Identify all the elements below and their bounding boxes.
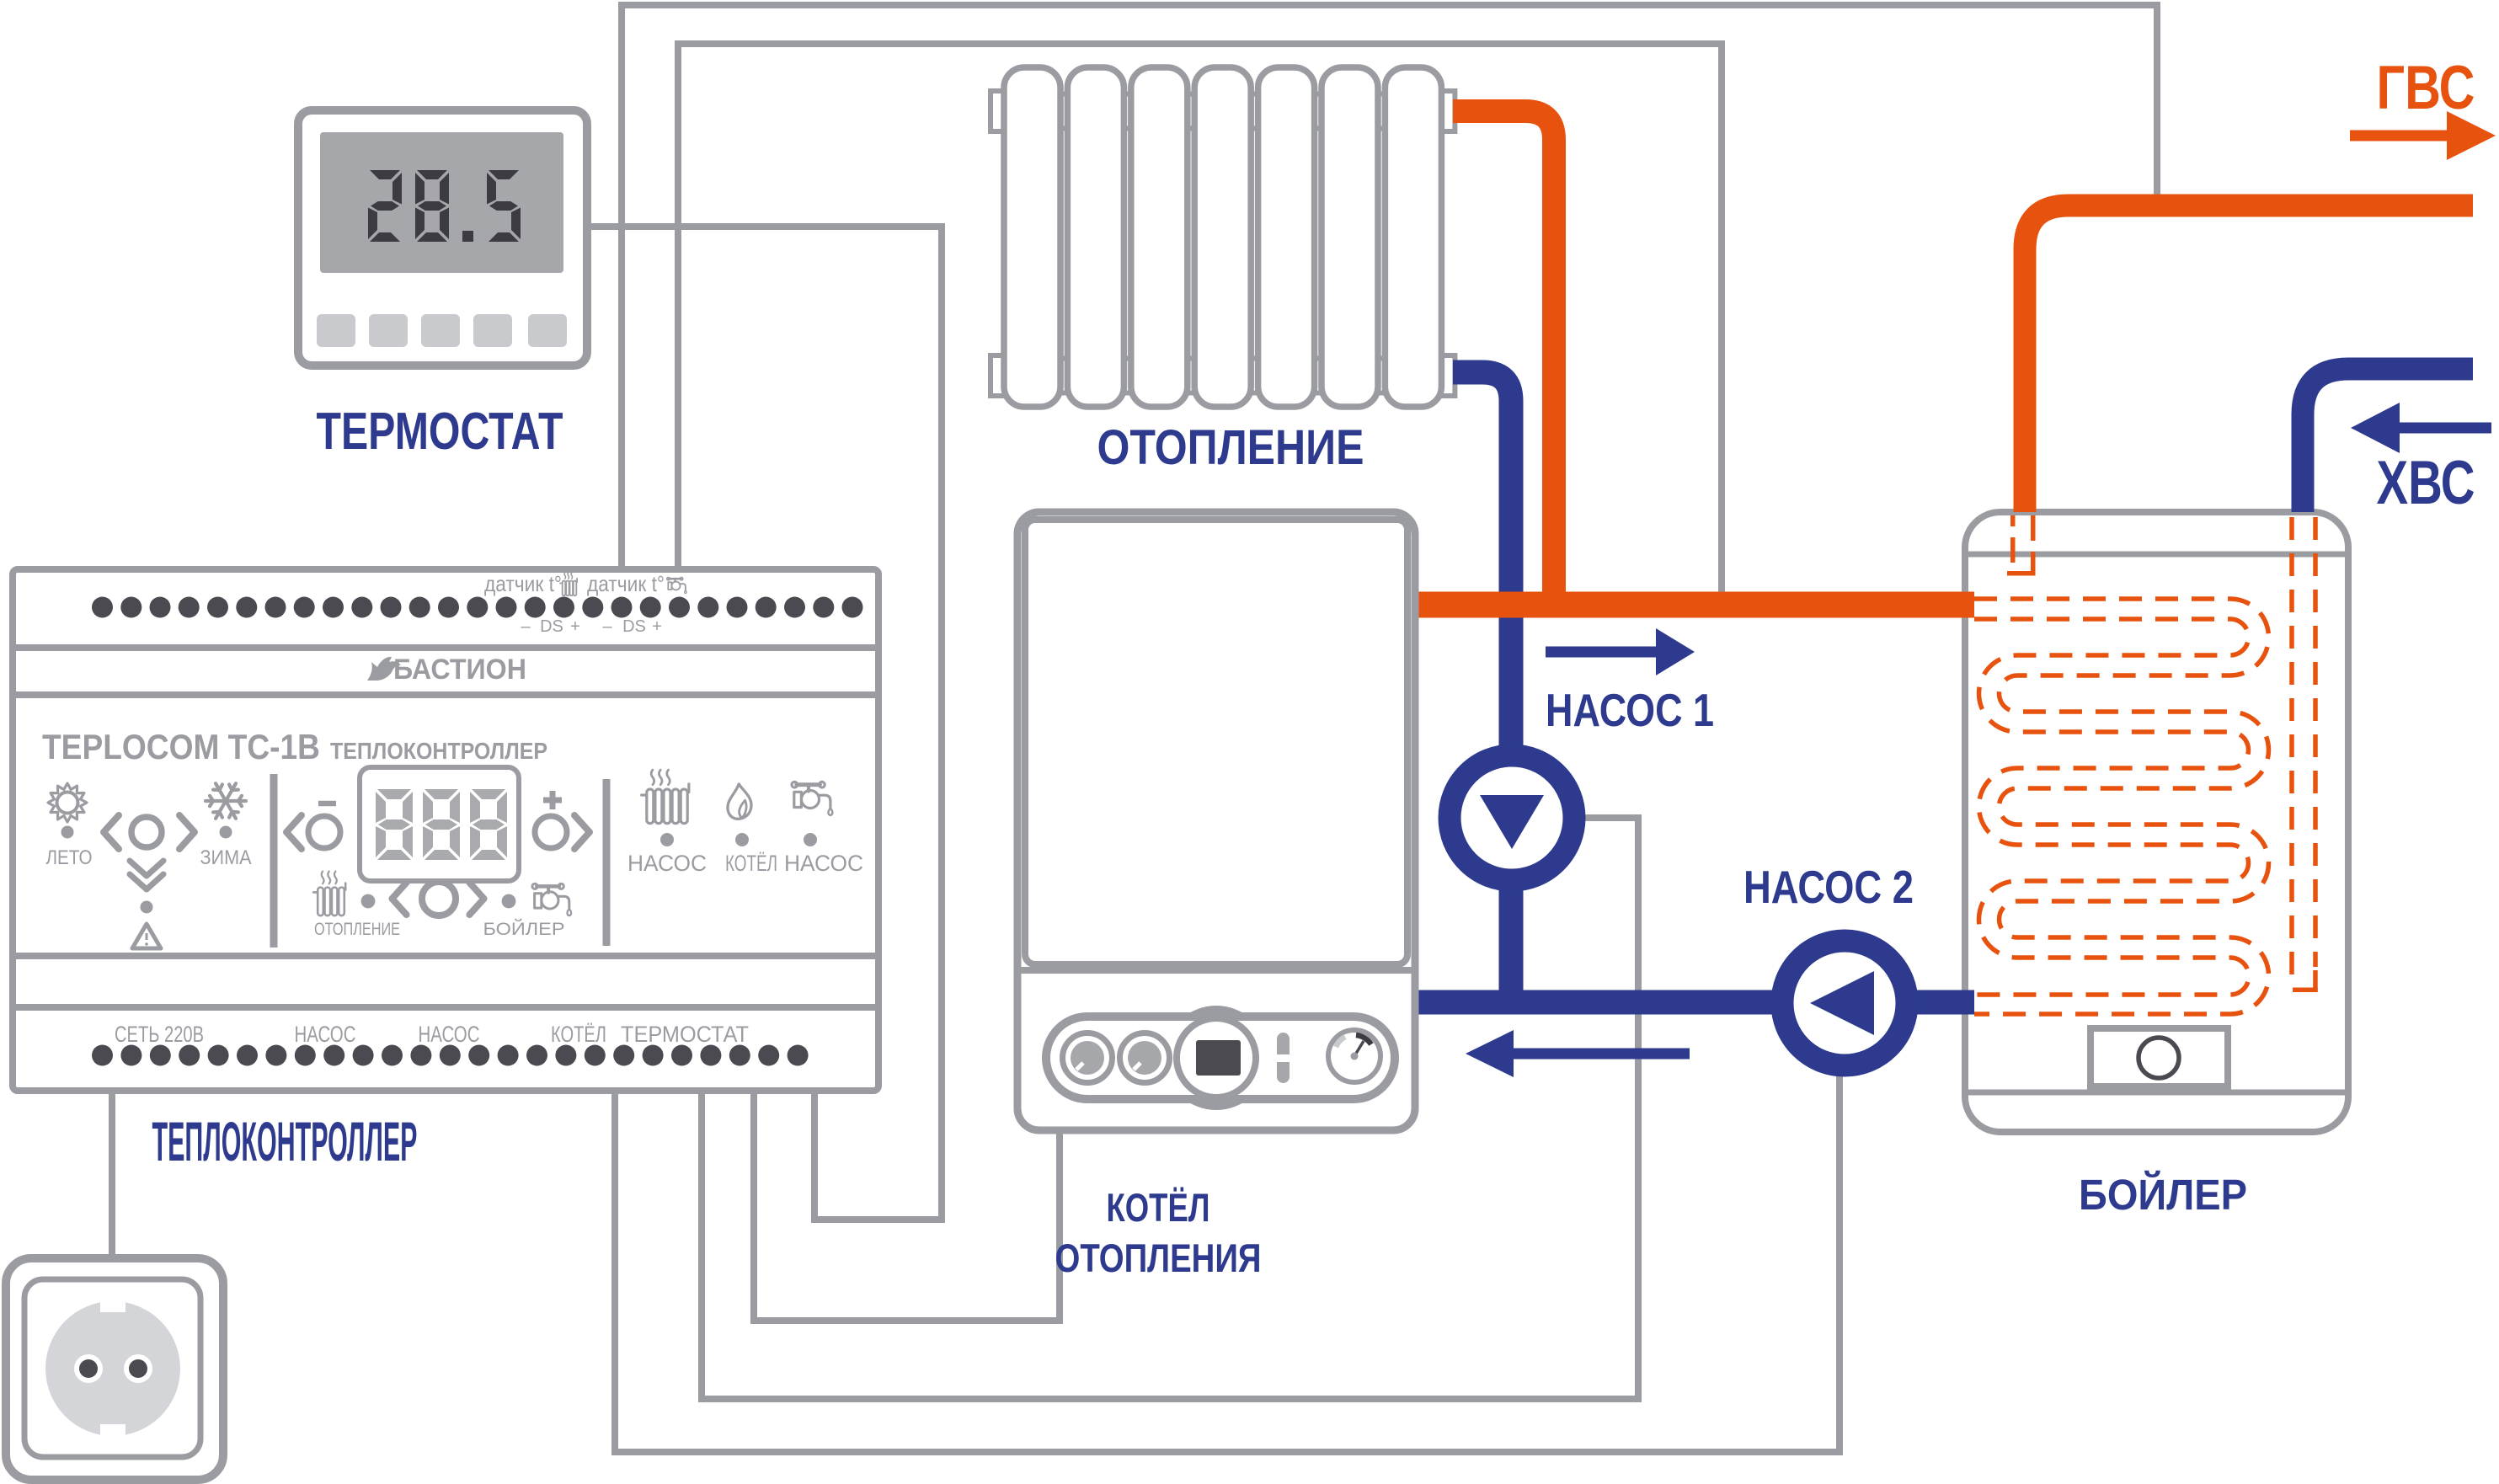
БАСТИОН logo bbox=[367, 654, 526, 686]
label НАСОС 2 bbox=[1743, 861, 1914, 913]
label НАСОС 1 bbox=[1546, 684, 1714, 736]
svg-text:КОТЁЛ: КОТЁЛ bbox=[725, 851, 777, 876]
label ТЕРМОСТАТ bbox=[317, 403, 563, 461]
label ГВС bbox=[2377, 54, 2475, 122]
controller title TEPLOCOM TC-1B bbox=[42, 727, 547, 766]
svg-text:датчик t°: датчик t° bbox=[484, 571, 562, 596]
ГВС arrow bbox=[2350, 111, 2496, 160]
radiator ОТОПЛЕНИЕ bbox=[991, 67, 1455, 407]
pipe: blue bottom main котёл to бойлер bbox=[1415, 990, 1974, 1015]
svg-text:КОТЁЛ: КОТЁЛ bbox=[551, 1022, 606, 1047]
pipe: ГВС outlet from tank bbox=[2025, 206, 2473, 512]
boiler tank БОЙЛЕР body bbox=[1965, 512, 2348, 1132]
svg-text:НАСОС: НАСОС bbox=[419, 1022, 480, 1047]
label ХВС bbox=[2377, 449, 2475, 517]
heat controller TEPLOCOM body bbox=[13, 569, 878, 1091]
flow arrow return (left) bbox=[1466, 1030, 1690, 1077]
svg-text:БОЙЛЕР: БОЙЛЕР bbox=[2079, 1170, 2247, 1219]
controller bottom terminal labels bbox=[115, 1022, 749, 1047]
svg-text:ОТОПЛЕНИЯ: ОТОПЛЕНИЯ bbox=[1055, 1236, 1262, 1280]
svg-text:НАСОС 2: НАСОС 2 bbox=[1743, 861, 1914, 913]
label ТЕПЛОКОНТРОЛЛЕР bbox=[152, 1110, 418, 1172]
wire: термостат to controller bbox=[589, 227, 942, 1220]
svg-text:НАСОС: НАСОС bbox=[295, 1022, 356, 1047]
dashed ГВС pickup inside tank bbox=[2007, 515, 2036, 576]
svg-text:БАСТИОН: БАСТИОН bbox=[393, 654, 526, 686]
controller output indicators group bbox=[627, 770, 863, 876]
wire: СЕТЬ 220В to socket bbox=[109, 1090, 115, 1263]
svg-text:ХВС: ХВС bbox=[2377, 449, 2475, 517]
wire: sensor датчик t° бойлера (controller top to ГВС pipe) bbox=[622, 5, 2157, 574]
pipe: ХВС inlet to tank bbox=[2303, 369, 2473, 512]
svg-text:–: – bbox=[602, 617, 612, 636]
svg-text:ЗИМА: ЗИМА bbox=[200, 846, 252, 869]
tank thermostat button bbox=[2091, 1028, 2228, 1086]
controller summer/winter selector group bbox=[46, 783, 252, 948]
divider line 2 bbox=[603, 779, 611, 946]
svg-text:КОТЁЛ: КОТЁЛ bbox=[1107, 1185, 1210, 1230]
svg-text:ТЕРМОСТАТ: ТЕРМОСТАТ bbox=[317, 403, 563, 461]
svg-text:НАСОС: НАСОС bbox=[784, 851, 863, 876]
label ОТОПЛЕНИЕ bbox=[1097, 420, 1364, 475]
thermostat ТЕРМОСТАТ bbox=[298, 110, 587, 366]
pump НАСОС 2 bbox=[1782, 941, 1907, 1065]
svg-text:DS: DS bbox=[622, 617, 646, 636]
svg-text:DS: DS bbox=[540, 617, 563, 636]
svg-text:ЛЕТО: ЛЕТО bbox=[46, 846, 93, 869]
pipe: orange supply radiator down bbox=[1453, 111, 1554, 603]
svg-text:ОТОПЛЕНИЕ: ОТОПЛЕНИЕ bbox=[1097, 420, 1364, 475]
svg-text:БОЙЛЕР: БОЙЛЕР bbox=[483, 919, 565, 939]
dashed ХВС pipe inside tank bbox=[2292, 517, 2315, 980]
svg-text:–: – bbox=[521, 617, 531, 636]
flow arrow near НАСОС 1 (right) bbox=[1546, 628, 1695, 675]
power socket 220V bbox=[6, 1258, 223, 1480]
svg-text:+: + bbox=[652, 617, 662, 636]
label КОТЁЛ ОТОПЛЕНИЯ bbox=[1055, 1185, 1262, 1280]
ХВС arrow bbox=[2351, 403, 2491, 453]
pipe: orange main supply котёл to бойлер bbox=[1412, 592, 1974, 618]
svg-text:ТЕРМОСТАТ: ТЕРМОСТАТ bbox=[621, 1022, 749, 1047]
pipe: blue return radiator to pump1 and bottom main bbox=[1453, 372, 1511, 1002]
svg-text:датчик t°: датчик t° bbox=[587, 571, 665, 596]
wire: controller КОТЁЛ output to boiler unit bbox=[754, 1090, 1060, 1321]
wire: sensor датчик t° котла (controller top to supply pipe) bbox=[678, 44, 1722, 600]
label БОЙЛЕР bbox=[2079, 1170, 2247, 1219]
wire: controller НАСОС output to pump 2 bbox=[615, 1073, 1840, 1452]
pump НАСОС 1 bbox=[1450, 755, 1574, 880]
svg-text:TEPLOCOM TC-1B: TEPLOCOM TC-1B bbox=[42, 727, 320, 766]
controller temperature display group bbox=[286, 767, 590, 939]
svg-text:+: + bbox=[570, 617, 580, 636]
svg-text:ГВС: ГВС bbox=[2377, 54, 2475, 122]
controller top terminal labels датчик t° bbox=[484, 571, 686, 636]
svg-text:НАСОС 1: НАСОС 1 bbox=[1546, 684, 1714, 736]
svg-text:ОТОПЛЕНИЕ: ОТОПЛЕНИЕ bbox=[314, 920, 400, 939]
controller top terminal dots bbox=[92, 597, 863, 618]
svg-text:СЕТЬ 220В: СЕТЬ 220В bbox=[115, 1022, 204, 1047]
wire: controller НАСОС output to pump 1 bbox=[702, 818, 1638, 1399]
svg-text:ТЕПЛОКОНТРОЛЛЕР: ТЕПЛОКОНТРОЛЛЕР bbox=[330, 738, 547, 764]
svg-text:НАСОС: НАСОС bbox=[627, 851, 707, 876]
heat exchanger coil inside бойлер (dashed) bbox=[1974, 599, 2269, 1014]
controller bottom terminal dots bbox=[92, 1045, 809, 1066]
boiler unit КОТЁЛ ОТОПЛЕНИЯ bbox=[1017, 512, 1415, 1130]
divider line 1 bbox=[270, 774, 278, 948]
svg-text:ТЕПЛОКОНТРОЛЛЕР: ТЕПЛОКОНТРОЛЛЕР bbox=[152, 1110, 418, 1172]
